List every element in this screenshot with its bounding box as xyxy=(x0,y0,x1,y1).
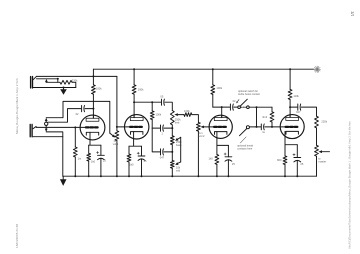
leader bright switch xyxy=(236,100,239,104)
capacitor 25uF V4 cathode xyxy=(293,145,301,177)
label mid pot xyxy=(176,166,181,173)
label vol 1 xyxy=(113,139,119,146)
node V2 Ck bus xyxy=(141,175,143,177)
wire V3 cathode xyxy=(217,138,229,145)
switch lower lever xyxy=(240,129,247,136)
label 25 V1 xyxy=(103,159,106,163)
resistor 820 V4 cathode xyxy=(283,145,287,177)
leader lower switch xyxy=(240,137,246,143)
node vol1 bus xyxy=(116,175,118,177)
resistor 220k input load xyxy=(60,80,72,84)
label 047 output xyxy=(296,110,301,114)
potentiometer 10k mid xyxy=(170,160,174,176)
resistor 1k V2 cathode xyxy=(127,146,131,176)
vol2 wiper arrow xyxy=(200,126,214,129)
switch bright dashed xyxy=(241,106,247,108)
label 100k V1 xyxy=(96,86,102,90)
label 100k V3 xyxy=(216,86,222,90)
switch bright lever xyxy=(240,99,247,106)
label 25 V4 xyxy=(300,162,303,166)
plate resistor 110k V4 xyxy=(288,69,292,118)
label 820 xyxy=(277,158,282,162)
label 100k slope xyxy=(156,113,162,117)
wire J2 sleeve contact xyxy=(46,132,63,176)
svg-text:1/2: 1/2 xyxy=(350,11,354,16)
wire ground bus xyxy=(63,175,317,177)
wire bass cap to pot xyxy=(164,127,172,129)
svg-text:vol 2: vol 2 xyxy=(199,134,205,138)
wire J2 ring to cap xyxy=(48,109,81,123)
wire vol1 to V2 grid xyxy=(117,126,130,128)
potentiometer master volume xyxy=(315,145,319,176)
wire plate to treble cap xyxy=(134,101,161,103)
resistor 100k slope xyxy=(150,102,154,128)
label 3M3 xyxy=(262,115,268,119)
resistor 100k mixer xyxy=(184,113,192,117)
wire V3 plate lead xyxy=(221,107,223,118)
node vol1 top / V2 grid xyxy=(116,126,118,128)
node V2 plate xyxy=(133,101,135,103)
node 1M bus xyxy=(74,175,76,177)
switch lower contact xyxy=(246,126,249,129)
wire J2 sleeve xyxy=(33,136,63,138)
node V3 plate lead xyxy=(221,106,223,108)
capacitor .047 mid xyxy=(161,149,164,155)
node J1 ground junction xyxy=(63,87,65,89)
node V3 Ck bus xyxy=(227,175,229,177)
wire V1 cathode xyxy=(89,140,101,145)
svg-text:220k: 220k xyxy=(321,120,327,124)
page number xyxy=(350,11,354,16)
svg-text:master: master xyxy=(318,160,326,164)
svg-text:820: 820 xyxy=(277,158,282,162)
ground at bus xyxy=(60,176,67,186)
triode V4 xyxy=(280,114,304,138)
plate resistor 100k V2 xyxy=(132,69,136,118)
triode V3 xyxy=(209,115,232,139)
svg-text:100k: 100k xyxy=(138,88,144,92)
node rail-R2 xyxy=(133,68,135,70)
svg-text:1k0: 1k0 xyxy=(129,162,134,166)
svg-text:047: 047 xyxy=(160,156,165,160)
capacitor .02 V3 coupling xyxy=(230,104,233,110)
node vol2 bus xyxy=(197,175,199,177)
wire R to sleeve line xyxy=(72,82,76,87)
svg-text:100k: 100k xyxy=(184,109,190,113)
triode V1 xyxy=(80,115,105,140)
potentiometer 250k bass xyxy=(170,136,174,161)
margin title text xyxy=(15,78,19,134)
mid wiper arrow xyxy=(175,162,181,165)
node V3 Rk bus xyxy=(216,175,218,177)
svg-text:treble boost contact: treble boost contact xyxy=(238,93,260,96)
wire V4 cathode xyxy=(285,138,297,144)
wire J1 contact to R xyxy=(46,81,60,83)
label 220k xyxy=(72,79,78,83)
B+ supply symbol xyxy=(314,66,321,73)
node V2 Rk bus xyxy=(128,175,130,177)
capacitor .005 treble xyxy=(162,99,165,105)
wire V4 plate to cap xyxy=(290,106,297,108)
svg-text:3m3: 3m3 xyxy=(262,115,268,119)
wire J1 upper contact line xyxy=(36,75,117,77)
wire V4 grid line xyxy=(250,126,261,128)
resistor 1M V1 grid leak xyxy=(73,127,77,176)
wire bass-mid wiper link xyxy=(180,137,182,162)
wire cap to V1 plate xyxy=(85,108,93,110)
label 047 xyxy=(160,156,165,160)
node mid cap/pot xyxy=(171,151,173,153)
node tone bus xyxy=(171,175,173,177)
label 1k V2 xyxy=(129,162,134,166)
capacitor .1 V4 grid xyxy=(261,124,264,130)
svg-text:1k0: 1k0 xyxy=(209,156,214,160)
wire J1 tip drop xyxy=(57,79,59,83)
margin date text xyxy=(15,224,19,248)
node drop/grid xyxy=(256,126,258,128)
margin file path text xyxy=(347,121,351,249)
wire J2 upper contact to vol1 wiper xyxy=(46,101,110,133)
label 1k V3 xyxy=(209,156,214,160)
svg-text:contacts here: contacts here xyxy=(237,147,253,150)
switch contact J1 xyxy=(45,79,48,82)
master wiper arrow xyxy=(319,150,330,153)
vol1 wiper arrow xyxy=(110,133,116,137)
wire cap to V4 grid xyxy=(265,126,286,128)
wire mid cap to pot xyxy=(164,151,172,153)
capacitor .047 output xyxy=(298,104,301,110)
treble wiper arrow xyxy=(174,113,184,116)
wire J1 line down to vol1 xyxy=(116,76,118,127)
label bass pot xyxy=(176,140,182,147)
jack J2 tip contact circle xyxy=(45,122,48,125)
label master xyxy=(318,156,326,163)
label treble pot xyxy=(175,118,181,125)
label 220k xyxy=(321,120,327,124)
label 1M xyxy=(78,156,82,160)
svg-text:100k: 100k xyxy=(216,86,222,90)
label 100k V2 xyxy=(138,88,144,92)
svg-text:100k: 100k xyxy=(96,86,102,90)
node V1 plate/cap xyxy=(92,108,94,110)
wire J1 sleeve line xyxy=(33,87,76,89)
capacitor .1 bass xyxy=(161,125,164,131)
plate resistor 100k V1 xyxy=(92,69,96,108)
label .02 xyxy=(76,112,79,116)
svg-text:18/04/2005 21:38: 18/04/2005 21:38 xyxy=(15,224,19,248)
label 005 xyxy=(160,94,163,98)
node rail-R3 xyxy=(212,68,214,70)
wire V2 cathode xyxy=(129,139,142,146)
wire slope mid to bass cap xyxy=(152,127,160,129)
capacitor .02 V1 plate coupling xyxy=(82,106,85,112)
label 100k mixer xyxy=(184,109,190,113)
wire switch to node xyxy=(249,106,272,108)
jack J1 input 1 xyxy=(31,76,37,88)
wire slope to mid cap xyxy=(152,128,160,152)
label 25 V2 xyxy=(144,159,147,163)
jack J2 input 2 xyxy=(30,124,36,136)
wire J1 tip line xyxy=(36,78,57,80)
wire V1 plate lead xyxy=(92,109,94,119)
ground at J1 xyxy=(60,88,67,95)
switch bright contact B xyxy=(247,106,250,109)
svg-text:1k0: 1k0 xyxy=(91,159,96,163)
wire J2 tip to V1 grid xyxy=(36,126,85,128)
switch contact J2 upper xyxy=(45,118,48,122)
node V4 Rk bus xyxy=(284,175,286,177)
svg-text:Mesa_Boogie-Boogie Mark 1 Amp: Mesa_Boogie-Boogie Mark 1 Amp 2 Sch xyxy=(15,78,19,134)
node slope top xyxy=(151,101,153,103)
node bass cap/pot xyxy=(171,127,173,129)
wire 100k to vol2 xyxy=(192,115,199,123)
potentiometer 1M vol 1 xyxy=(115,127,119,176)
plate resistor 100k V3 xyxy=(211,69,215,107)
wire treble cap to pot xyxy=(165,102,172,110)
switch contact J2 lower xyxy=(45,126,48,132)
svg-text:110k: 110k xyxy=(293,94,299,98)
resistor 220k output xyxy=(315,116,319,145)
wire V3 plate line xyxy=(213,106,230,108)
svg-text:mid: mid xyxy=(176,169,181,173)
label .02 coupling xyxy=(233,99,236,103)
svg-text:file:///C|/Documents/TubeSchem: file:///C|/Documents/TubeSchems/coolamps… xyxy=(347,121,351,249)
label lower switch xyxy=(237,144,253,150)
resistor 3M3 xyxy=(270,107,274,127)
node 3M3/grid xyxy=(271,126,273,128)
svg-text:047: 047 xyxy=(296,110,301,114)
node V4 plate xyxy=(289,106,291,108)
capacitor 25uF V1 cathode xyxy=(97,145,105,176)
label 110k V4 xyxy=(293,94,299,98)
label 1k V1 xyxy=(91,159,96,163)
node J1 line crossing xyxy=(92,75,94,77)
svg-text:vol 1: vol 1 xyxy=(113,142,119,146)
node V1 grid/1M xyxy=(74,126,76,128)
label 25 V3 xyxy=(232,162,235,166)
label bright switch xyxy=(238,90,260,96)
label .1 xyxy=(161,132,163,136)
svg-text:treb: treb xyxy=(175,121,180,125)
node V4 Ck bus xyxy=(296,175,298,177)
resistor 1k V1 cathode xyxy=(87,145,91,176)
potentiometer 1M vol 2 xyxy=(197,122,201,176)
switch bright contact A xyxy=(234,106,241,109)
capacitor 25uF V3 cathode xyxy=(224,145,232,176)
potentiometer 250k treble xyxy=(170,111,174,136)
bass wiper arrow xyxy=(175,137,181,141)
capacitor 25uF V2 cathode xyxy=(137,146,145,176)
node V1 Rk bus xyxy=(88,175,90,177)
resistor 1k V3 cathode xyxy=(215,145,219,176)
label .1 V4 grid xyxy=(262,130,265,134)
svg-text:100k: 100k xyxy=(156,113,162,117)
wire cap to 220k xyxy=(301,107,316,116)
node rail-R4 xyxy=(289,68,291,70)
node switch/drop xyxy=(256,106,258,108)
svg-text:1m: 1m xyxy=(78,156,82,160)
label vol 2 xyxy=(199,131,205,138)
node J1 tip junction xyxy=(57,78,59,80)
triode V2 xyxy=(125,114,149,139)
wire B+ rail xyxy=(93,68,314,70)
node V1 Ck bus xyxy=(100,175,102,177)
wire drop to grid line xyxy=(256,107,258,127)
